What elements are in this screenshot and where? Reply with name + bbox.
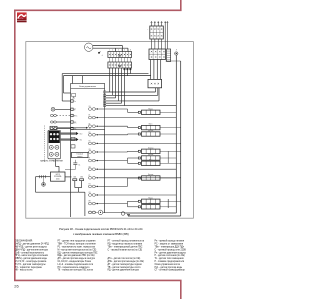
svg-text:ЗчПД - датчик давления 24 ЧПД: ЗчПД - датчик давления 24 ЧПД [15, 244, 49, 246]
svg-text:Датчик: Датчик [148, 130, 153, 132]
svg-text:РС - защита от замерзания: РС - защита от замерзания [155, 244, 184, 246]
svg-text:РГ - датчик тяги продуктов сго: РГ - датчик тяги продуктов сгорания [58, 241, 97, 243]
svg-text:7: 7 [127, 50, 128, 52]
svg-text:3: 3 [115, 50, 116, 52]
svg-text:ОБОЗНАЧЕНИЯ:: ОБОЗНАЧЕНИЯ: [15, 240, 33, 243]
svg-text:С1,С2,С3 - конденсаторы блока: С1,С2,С3 - конденсаторы блока [58, 261, 92, 263]
svg-text:26: 26 [14, 284, 19, 289]
svg-text:Т3 - термостат перегрева: Т3 - термостат перегрева [15, 267, 42, 269]
svg-text:У1,У2,У3 - электроды розжига: У1,У2,У3 - электроды розжига [15, 261, 47, 263]
svg-text:ТВн - температурный датчик ГВС: ТВн - температурный датчик ГВС [108, 246, 143, 249]
svg-text:ДУ: ДУ [89, 128, 91, 130]
svg-text:L1,L2 - клеммы подключения сет: L1,L2 - клеммы подключения сети [58, 264, 94, 266]
svg-text:НГ: НГ [89, 158, 91, 160]
svg-text:Датчик: Датчик [148, 154, 153, 156]
svg-text:2: 2 [112, 50, 113, 52]
svg-text:Sб: Sб [118, 64, 122, 68]
svg-text:СвВ - сетевой выключатель: СвВ - сетевой выключатель [15, 251, 45, 254]
svg-text:СТ - сетевой трансформатор: СТ - сетевой трансформатор [155, 269, 186, 272]
svg-text:Р - плавкие предохранители: Р - плавкие предохранители [155, 261, 185, 263]
svg-text:ТВН - ТСН насос контура отопле: ТВН - ТСН насос контура отопления [58, 244, 97, 246]
svg-text:блока управления котла: блока управления котла [155, 264, 181, 266]
svg-text:РД - модулятор газового клапан: РД - модулятор газового клапана [108, 244, 143, 246]
svg-text:Х11: Х11 [80, 140, 83, 142]
svg-text:Вент.: Вент. [149, 124, 153, 126]
svg-text:LD56: LD56 [56, 178, 60, 180]
svg-text:ПЗ - переключатель зима/лето: ПЗ - переключатель зима/лето [58, 267, 91, 269]
svg-text:Насос: Насос [148, 108, 153, 110]
svg-text:Л: Л [176, 50, 177, 52]
svg-text:Датчик: Датчик [148, 174, 153, 176]
svg-text:ТВ: ТВ [89, 141, 91, 143]
svg-text:ТН: ТН [89, 184, 91, 186]
svg-text:Рн - прямой провод питания: Рн - прямой провод питания [155, 240, 185, 243]
svg-text:СД: СД [89, 192, 91, 194]
svg-text:Рч1 - датчик протока воды: Рч1 - датчик протока воды [155, 267, 183, 269]
svg-text:С1: С1 [78, 164, 80, 166]
svg-text:ДВН ЧПД - датчик вентилятора: ДВН ЧПД - датчик вентилятора [15, 249, 48, 251]
svg-text:Р - датчик отопления (по СЕ): Р - датчик отопления (по СЕ) [155, 255, 186, 257]
svg-text:Клапан: Клапан [148, 147, 153, 149]
svg-text:РД: РД [89, 132, 91, 134]
svg-text:ПАНЕЛЬ УПРАВЛЕНИЯ: ПАНЕЛЬ УПРАВЛЕНИЯ [40, 160, 63, 163]
svg-text:ТВ - датчик температуры отопл.: ТВ - датчик температуры отопл. [108, 267, 142, 269]
svg-text:4: 4 [118, 50, 119, 52]
svg-text:СВ1: СВ1 [73, 176, 76, 178]
svg-text:Вент.: Вент. [149, 203, 153, 205]
svg-text:РД - датчик давления контура: РД - датчик давления контура [108, 270, 140, 272]
svg-text:ТВн - температура ДДУ ПДч: ТВн - температура ДДУ ПДч [155, 247, 185, 249]
svg-text:С - газовый клапан котла (по С: С - газовый клапан котла (по СЕ) [108, 248, 143, 251]
svg-text:Рн - датчик давления воздуха: Рн - датчик давления воздуха [155, 252, 187, 254]
svg-text:М - мотор вентилятора котла (п: М - мотор вентилятора котла (по СЕ) [58, 249, 97, 251]
svg-text:РГ - сетевой провод питания ко: РГ - сетевой провод питания котла [108, 240, 145, 243]
svg-text:с мембранным газовым клапаном: с мембранным газовым клапаном BS80 (305) [73, 232, 129, 236]
svg-text:Тп - датчик тяги помещения: Тп - датчик тяги помещения [155, 258, 185, 260]
svg-text:Насос: Насос [148, 197, 153, 199]
svg-text:НГЦ - насос контура отопления: НГЦ - насос контура отопления [15, 255, 49, 257]
svg-text:НК - насос котла: НК - насос котла [15, 270, 33, 272]
svg-text:1x: 1x [74, 101, 76, 103]
svg-text:ОВРЦ - датчик давления воды: ОВРЦ - датчик давления воды [15, 258, 47, 260]
svg-text:БЛОК: БЛОК [56, 174, 60, 176]
svg-text:ВН: ВН [89, 201, 91, 203]
svg-text:8: 8 [130, 50, 131, 52]
svg-text:СВ: СВ [89, 149, 91, 151]
svg-text:БДн - датчик давления ГВС (по: БДн - датчик давления ГВС (по СЕ) [58, 255, 95, 257]
svg-text:ДТ: ДТ [74, 109, 76, 111]
svg-text:Х10: Х10 [80, 134, 83, 136]
svg-text:ДП - датчик протока воды в кон: ДП - датчик протока воды в контуре [58, 258, 96, 260]
svg-text:БД - датчик температуры контур: БД - датчик температуры контура ГВС [58, 252, 98, 254]
svg-text:Sб: Sб [118, 53, 122, 57]
svg-text:СВ2: СВ2 [80, 176, 83, 178]
svg-text:ВТ: ВТ [89, 115, 91, 117]
svg-text:Реле: Реле [149, 159, 153, 161]
svg-text:АВ ЧПД - датчик реле воздуха: АВ ЧПД - датчик реле воздуха [15, 246, 47, 249]
svg-text:РГ: РГ [89, 175, 91, 177]
svg-text:ДПв - датчик протока воды (по: ДПв - датчик протока воды (по СЕ) [108, 261, 145, 263]
svg-text:Т1,Т2 - датчики температуры: Т1,Т2 - датчики температуры [15, 264, 46, 266]
svg-text:клапан: клапан [77, 156, 82, 158]
svg-text:ДП: ДП [89, 166, 91, 168]
svg-text:Рисунок 18 - Схема подключения: Рисунок 18 - Схема подключения котлов PR… [59, 227, 143, 231]
svg-text:ДТ - датчик температуры подачи: ДТ - датчик температуры подачи [108, 264, 143, 266]
svg-text:Р1 - выключатель комн. термост: Р1 - выключатель комн. термостата [58, 247, 96, 249]
svg-text:ДТн - датчик тяги котла (по СЕ: ДТн - датчик тяги котла (по СЕ) [108, 258, 141, 260]
svg-text:С - нулевой провод сети 220В: С - нулевой провод сети 220В [155, 248, 187, 251]
svg-text:ДТ: ДТ [89, 123, 91, 125]
svg-text:СН: СН [89, 106, 91, 108]
svg-text:Блок управления: Блок управления [79, 86, 96, 88]
svg-text:ТК - термостат контура ГВС кот: ТК - термостат контура ГВС котла [58, 270, 94, 272]
